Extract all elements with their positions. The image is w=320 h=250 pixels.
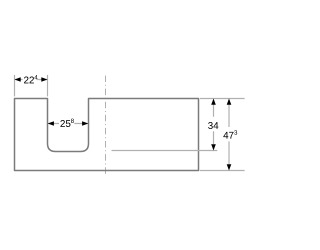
- label 22: [24, 77, 34, 84]
- arrow up 47.3: [227, 99, 232, 105]
- label 47 superscript 3: [234, 130, 237, 134]
- dimension line 34: [213, 104, 215, 144]
- arrow down 47.3: [227, 164, 232, 170]
- dimension line 25.8: [48, 123, 88, 125]
- arrow left 22.4: [15, 77, 21, 82]
- arrow up 34: [211, 99, 216, 105]
- arrow right 25.8: [82, 121, 88, 126]
- extension line bottom right: [200, 170, 245, 172]
- dimension line 22.4: [15, 79, 47, 81]
- label 47: [223, 132, 233, 139]
- dimension line 47.3: [228, 104, 230, 164]
- centerline (vertical dash-dot axis): [105, 76, 107, 175]
- arrow left 25.8: [48, 121, 54, 126]
- extension line top right: [200, 98, 245, 100]
- arrow down 34: [211, 144, 216, 150]
- extension line right of dim 22.4: [47, 75, 49, 97]
- countertop outline with U-shaped cutout: [15, 99, 199, 171]
- label 22 superscript 4: [34, 75, 37, 79]
- extension line left of dim 22.4: [14, 75, 16, 97]
- arrow right 22.4: [41, 77, 47, 82]
- label 34: [208, 122, 218, 129]
- label 25 superscript 8: [71, 119, 74, 123]
- label 25: [60, 120, 70, 127]
- inner edge line (depth 34 reference): [112, 150, 218, 152]
